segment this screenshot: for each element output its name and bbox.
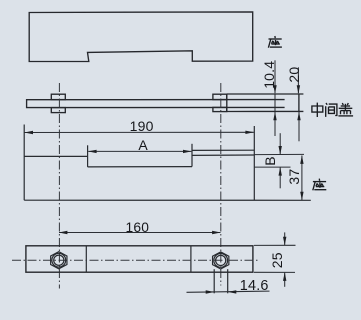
dimension 160	[59, 220, 221, 235]
front view seat: top edge left part	[24, 155, 87, 157]
front view seat: left edge	[23, 125, 25, 201]
extension line B top / 37 top	[254, 153, 304, 155]
bar internal vertical right	[190, 246, 192, 272]
dimension 20 (vertical, above cover)	[286, 67, 302, 94]
label seat #1 (hanzi zuo)	[268, 36, 282, 48]
dimension A	[88, 137, 192, 153]
svg-text:190: 190	[130, 118, 154, 134]
dimension 190	[24, 118, 254, 134]
dimension 37 line with arrows	[286, 155, 303, 200]
dimension 25 upper arrow	[283, 232, 286, 245]
svg-text:20: 20	[286, 67, 302, 83]
bar internal vertical left	[85, 246, 87, 272]
svg-text:37: 37	[286, 169, 302, 185]
svg-text:A: A	[138, 137, 148, 153]
middle cover right tall section	[227, 94, 304, 112]
svg-text:10.4: 10.4	[261, 61, 277, 89]
front view seat: top edge right section	[192, 154, 254, 156]
label seat #2 (hanzi zuo)	[313, 179, 327, 191]
front view seat: step vertical right	[191, 144, 193, 167]
front view seat: right edge	[253, 126, 255, 200]
svg-text:25: 25	[269, 252, 285, 268]
middle cover thin plate	[27, 100, 285, 108]
dimension B lower arrow	[279, 167, 282, 188]
hole edge lines below right nut	[213, 269, 215, 293]
hex nut right	[213, 252, 229, 269]
centerline bolt left	[58, 83, 60, 289]
dimension B upper arrow	[279, 133, 282, 154]
dimension 10.4 (vertical, above cover)	[261, 60, 277, 111]
label middle cover (hanzi zhong jian gai)	[312, 103, 353, 117]
bolt left (through cover)	[51, 94, 65, 112]
extension line 25 bottom	[254, 271, 295, 273]
svg-text:14.6: 14.6	[240, 278, 269, 294]
extension line B bottom	[254, 166, 290, 168]
seat (zuo) top profile outline	[29, 12, 253, 62]
hex nut left	[51, 252, 67, 269]
front view seat: rim line right section	[192, 149, 254, 151]
dimension 14.6	[187, 278, 270, 294]
svg-text:160: 160	[126, 220, 150, 235]
bolt right (through cover)	[213, 94, 227, 111]
bottom bar outline	[26, 246, 253, 272]
dimension arrow up (20 lower)	[297, 112, 300, 142]
front view seat: bottom edge	[24, 199, 311, 201]
bar horizontal centerline	[12, 259, 258, 261]
centerline bolt right	[220, 83, 222, 286]
front view seat: recess line	[88, 166, 192, 168]
dimension 25 lower arrow	[269, 252, 286, 287]
svg-text:B: B	[262, 156, 278, 166]
dimension arrow up (10.4 lower)	[273, 112, 276, 136]
extension line 25 top	[254, 244, 296, 246]
front view seat: step vertical left	[87, 145, 89, 167]
